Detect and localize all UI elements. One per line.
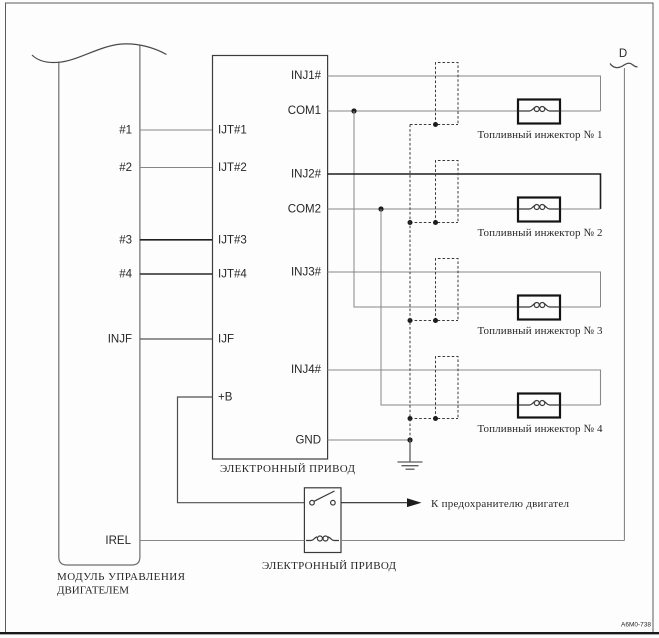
node COM2 junction <box>378 206 383 211</box>
connector 4 (dashed) <box>410 357 458 419</box>
wire COM3 right of injector 3 <box>560 306 601 308</box>
svg-text:INJ1#: INJ1# <box>291 70 322 82</box>
wire #4 to IJT#4 <box>140 273 213 275</box>
wire COM1 bus down to COM3 <box>354 111 518 307</box>
svg-text:IJT#4: IJT#4 <box>218 268 247 280</box>
svg-text:INJ2#: INJ2# <box>291 168 322 180</box>
wire COM4 right of injector 4 <box>560 404 601 406</box>
svg-text:#3: #3 <box>119 234 132 246</box>
wire relay coil to D bus <box>341 540 624 542</box>
wire GND <box>328 439 410 441</box>
node connector 3 drain <box>433 318 438 323</box>
node connector 1 drain <box>433 122 438 127</box>
svg-text:INJ3#: INJ3# <box>291 267 322 279</box>
ECM module МОДУЛЬ УПРАВЛЕНИЯ ДВИГАТЕЛЕМ <box>32 44 167 565</box>
svg-text:IJT#2: IJT#2 <box>218 162 247 174</box>
node COM1 junction <box>351 108 356 113</box>
wire #2 to IJT#2 <box>140 167 213 169</box>
wire COM1 right of injector 1 <box>560 110 601 112</box>
svg-text:ДВИГАТЕЛЕМ: ДВИГАТЕЛЕМ <box>57 585 129 597</box>
injector 4 <box>518 394 560 418</box>
wire COM2 right of injector 2 <box>560 208 601 210</box>
wire relay switch output with arrow <box>341 502 408 504</box>
shield drain bus (dashed) <box>409 125 411 441</box>
svg-text:К предохранителю двигател: К предохранителю двигател <box>431 498 570 510</box>
svg-text:IREL: IREL <box>105 535 131 547</box>
svg-text:#1: #1 <box>119 125 132 137</box>
svg-text:GND: GND <box>295 434 321 446</box>
injector 2 <box>518 198 560 222</box>
svg-text:INJ4#: INJ4# <box>291 364 322 376</box>
wire INJ2# <box>328 174 601 209</box>
wire #1 to IJT#1 <box>140 129 213 131</box>
wire COM1 left <box>328 110 518 112</box>
svg-text:INJF: INJF <box>108 334 132 346</box>
svg-text:IJT#1: IJT#1 <box>218 125 247 137</box>
connector D squiggle <box>610 63 638 67</box>
wire #3 to IJT#3 <box>140 239 213 241</box>
wire COM2 left <box>328 208 518 210</box>
driver box ЭЛЕКТРОННЫЙ ПРИВОД U1 <box>213 56 328 460</box>
connector 1 (dashed) <box>410 63 458 125</box>
wire IREL to relay coil <box>140 540 305 542</box>
svg-text:A6M0-738: A6M0-738 <box>621 622 651 629</box>
relay switch <box>310 491 336 505</box>
arrowhead <box>407 498 422 507</box>
svg-text:МОДУЛЬ УПРАВЛЕНИЯ: МОДУЛЬ УПРАВЛЕНИЯ <box>57 571 186 583</box>
injector 3 <box>518 296 560 320</box>
svg-text:IJF: IJF <box>218 334 234 346</box>
relay box ЭЛЕКТРОННЫЙ ПРИВОД <box>304 488 341 553</box>
svg-text:COM1: COM1 <box>288 105 321 117</box>
svg-text:#2: #2 <box>119 162 132 174</box>
svg-text:ЭЛЕКТРОННЫЙ ПРИВОД: ЭЛЕКТРОННЫЙ ПРИВОД <box>262 560 396 572</box>
relay coil <box>306 536 339 541</box>
wire INJ4# <box>328 370 601 405</box>
injector 1 <box>518 100 560 124</box>
connector 3 (dashed) <box>410 259 458 321</box>
svg-text:Топливный инжектор № 2: Топливный инжектор № 2 <box>478 227 603 239</box>
wire D bus down right side <box>623 68 625 541</box>
wire INJF to IJF <box>140 338 213 340</box>
svg-text:#4: #4 <box>119 268 132 280</box>
svg-text:Топливный инжектор № 3: Топливный инжектор № 3 <box>478 325 604 337</box>
svg-text:COM2: COM2 <box>288 203 321 215</box>
svg-text:D: D <box>619 48 627 60</box>
module label <box>57 571 186 597</box>
wire INJ3# <box>328 272 601 307</box>
wire COM2 bus down to COM4 <box>381 209 518 405</box>
svg-text:+B: +B <box>218 392 233 404</box>
svg-text:IJT#3: IJT#3 <box>218 234 247 246</box>
svg-text:ЭЛЕКТРОННЫЙ ПРИВОД: ЭЛЕКТРОННЫЙ ПРИВОД <box>220 463 355 475</box>
node connector 2 drain <box>433 220 438 225</box>
svg-text:Топливный инжектор № 4: Топливный инжектор № 4 <box>478 423 604 435</box>
node connector 4 drain <box>433 416 438 421</box>
wire +B supply <box>178 397 305 503</box>
svg-text:Топливный инжектор № 1: Топливный инжектор № 1 <box>478 129 603 141</box>
ground <box>398 440 423 469</box>
wire INJ1# <box>328 76 601 111</box>
connector 2 (dashed) <box>410 161 458 223</box>
node GND junction <box>407 437 412 442</box>
